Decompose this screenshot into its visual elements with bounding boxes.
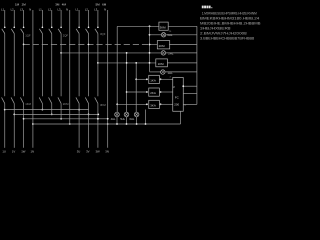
svg-text:3KA: 3KA — [150, 103, 156, 107]
svg-text:3KM: 3KM — [100, 103, 106, 107]
svg-text:M: M — [173, 87, 175, 89]
svg-text:1KM: 1KM — [158, 62, 165, 66]
svg-text:1U: 1U — [2, 150, 6, 154]
svg-text:2KM: 2KM — [159, 44, 166, 48]
svg-text:3U: 3U — [77, 150, 81, 154]
svg-text:1M: 1M — [15, 2, 20, 6]
svg-text:N: N — [29, 7, 31, 11]
svg-text:6M: 6M — [102, 2, 107, 6]
svg-text:2KA: 2KA — [150, 91, 156, 95]
svg-text:1KM: 1KM — [25, 102, 31, 106]
svg-text:3HL: 3HL — [167, 33, 173, 37]
svg-text:5M: 5M — [96, 2, 101, 6]
svg-text:200: 200 — [174, 103, 179, 107]
svg-text:3M: 3M — [55, 2, 60, 6]
svg-text:6HL: 6HL — [130, 117, 135, 121]
svg-text:5HL: 5HL — [120, 117, 125, 121]
svg-text:1HL: 1HL — [168, 71, 174, 75]
svg-text:BMEKBRHBHM3180.HBIB.24: BMEKBRHBHM3180.HBIB.24 — [200, 17, 259, 21]
svg-text:1V: 1V — [12, 150, 16, 154]
svg-text:FC: FC — [175, 95, 179, 99]
svg-text:3N: 3N — [105, 150, 109, 154]
svg-text:3QF: 3QF — [100, 32, 106, 36]
svg-text:4M: 4M — [62, 2, 67, 6]
svg-text:2M: 2M — [22, 2, 27, 6]
svg-text:MB20BIHE.BMHBHHB.2HBBMB: MB20BIHE.BMHBHHB.2HBBMB — [200, 22, 262, 26]
svg-text:N: N — [104, 7, 106, 11]
svg-text:3KM: 3KM — [160, 26, 167, 30]
svg-text:1W: 1W — [21, 150, 26, 154]
svg-text:1QF: 1QF — [25, 33, 31, 37]
svg-text:2.BMJVWJ7HJH20008: 2.BMJVWJ7HJH20008 — [200, 32, 247, 36]
svg-text:2KM: 2KM — [63, 102, 69, 106]
svg-text:1.M0RHBESEIEHPSMRB.HH2B.RHNM: 1.M0RHBESEIEHPSMRB.HH2B.RHNM — [202, 12, 257, 16]
svg-text:1N: 1N — [31, 150, 35, 154]
svg-text:N: N — [66, 7, 68, 11]
svg-text:4HL: 4HL — [111, 117, 116, 121]
svg-text:3HBJHXBER8: 3HBJHXBER8 — [200, 27, 231, 31]
svg-text:2QF: 2QF — [63, 33, 69, 37]
svg-text:3.BBEHBBHCHBBBB7BFHBB8: 3.BBEHBBHCHBBBB7BFHBB8 — [200, 37, 254, 41]
svg-text:3V: 3V — [86, 150, 90, 154]
svg-text:1KA: 1KA — [150, 78, 156, 82]
svg-text:2HL: 2HL — [168, 52, 174, 56]
svg-text:3W: 3W — [96, 150, 101, 154]
